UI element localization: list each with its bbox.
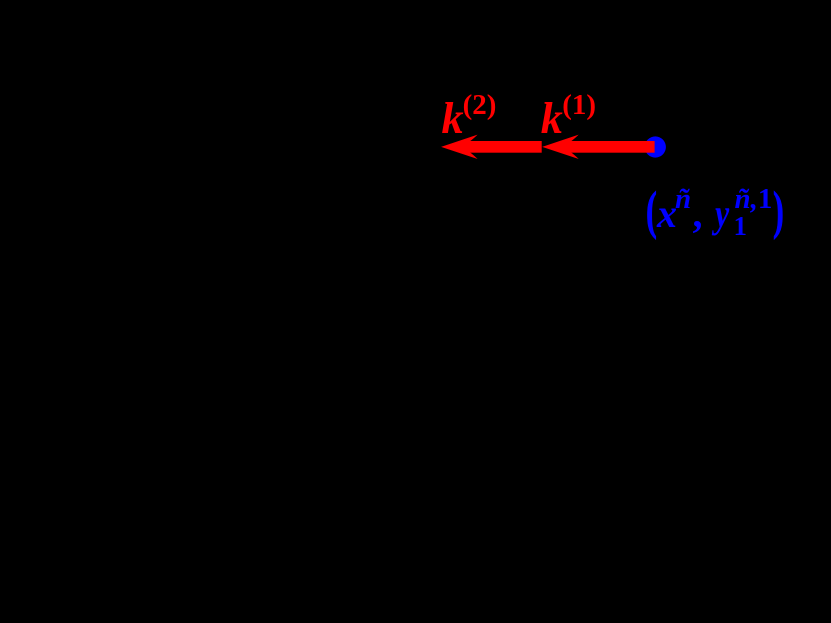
label (x^n, y_1^{n,1}) <box>646 210 657 212</box>
label k^(1) <box>541 118 563 120</box>
arrow k1 shaft <box>571 141 655 153</box>
arrow k2 shaft <box>470 141 542 153</box>
label k^(2) <box>442 118 464 120</box>
node (x^n, y_1^{n,1}) blue point <box>645 136 666 157</box>
arrow k1 head <box>542 135 579 159</box>
arrow k2 head <box>441 135 478 159</box>
